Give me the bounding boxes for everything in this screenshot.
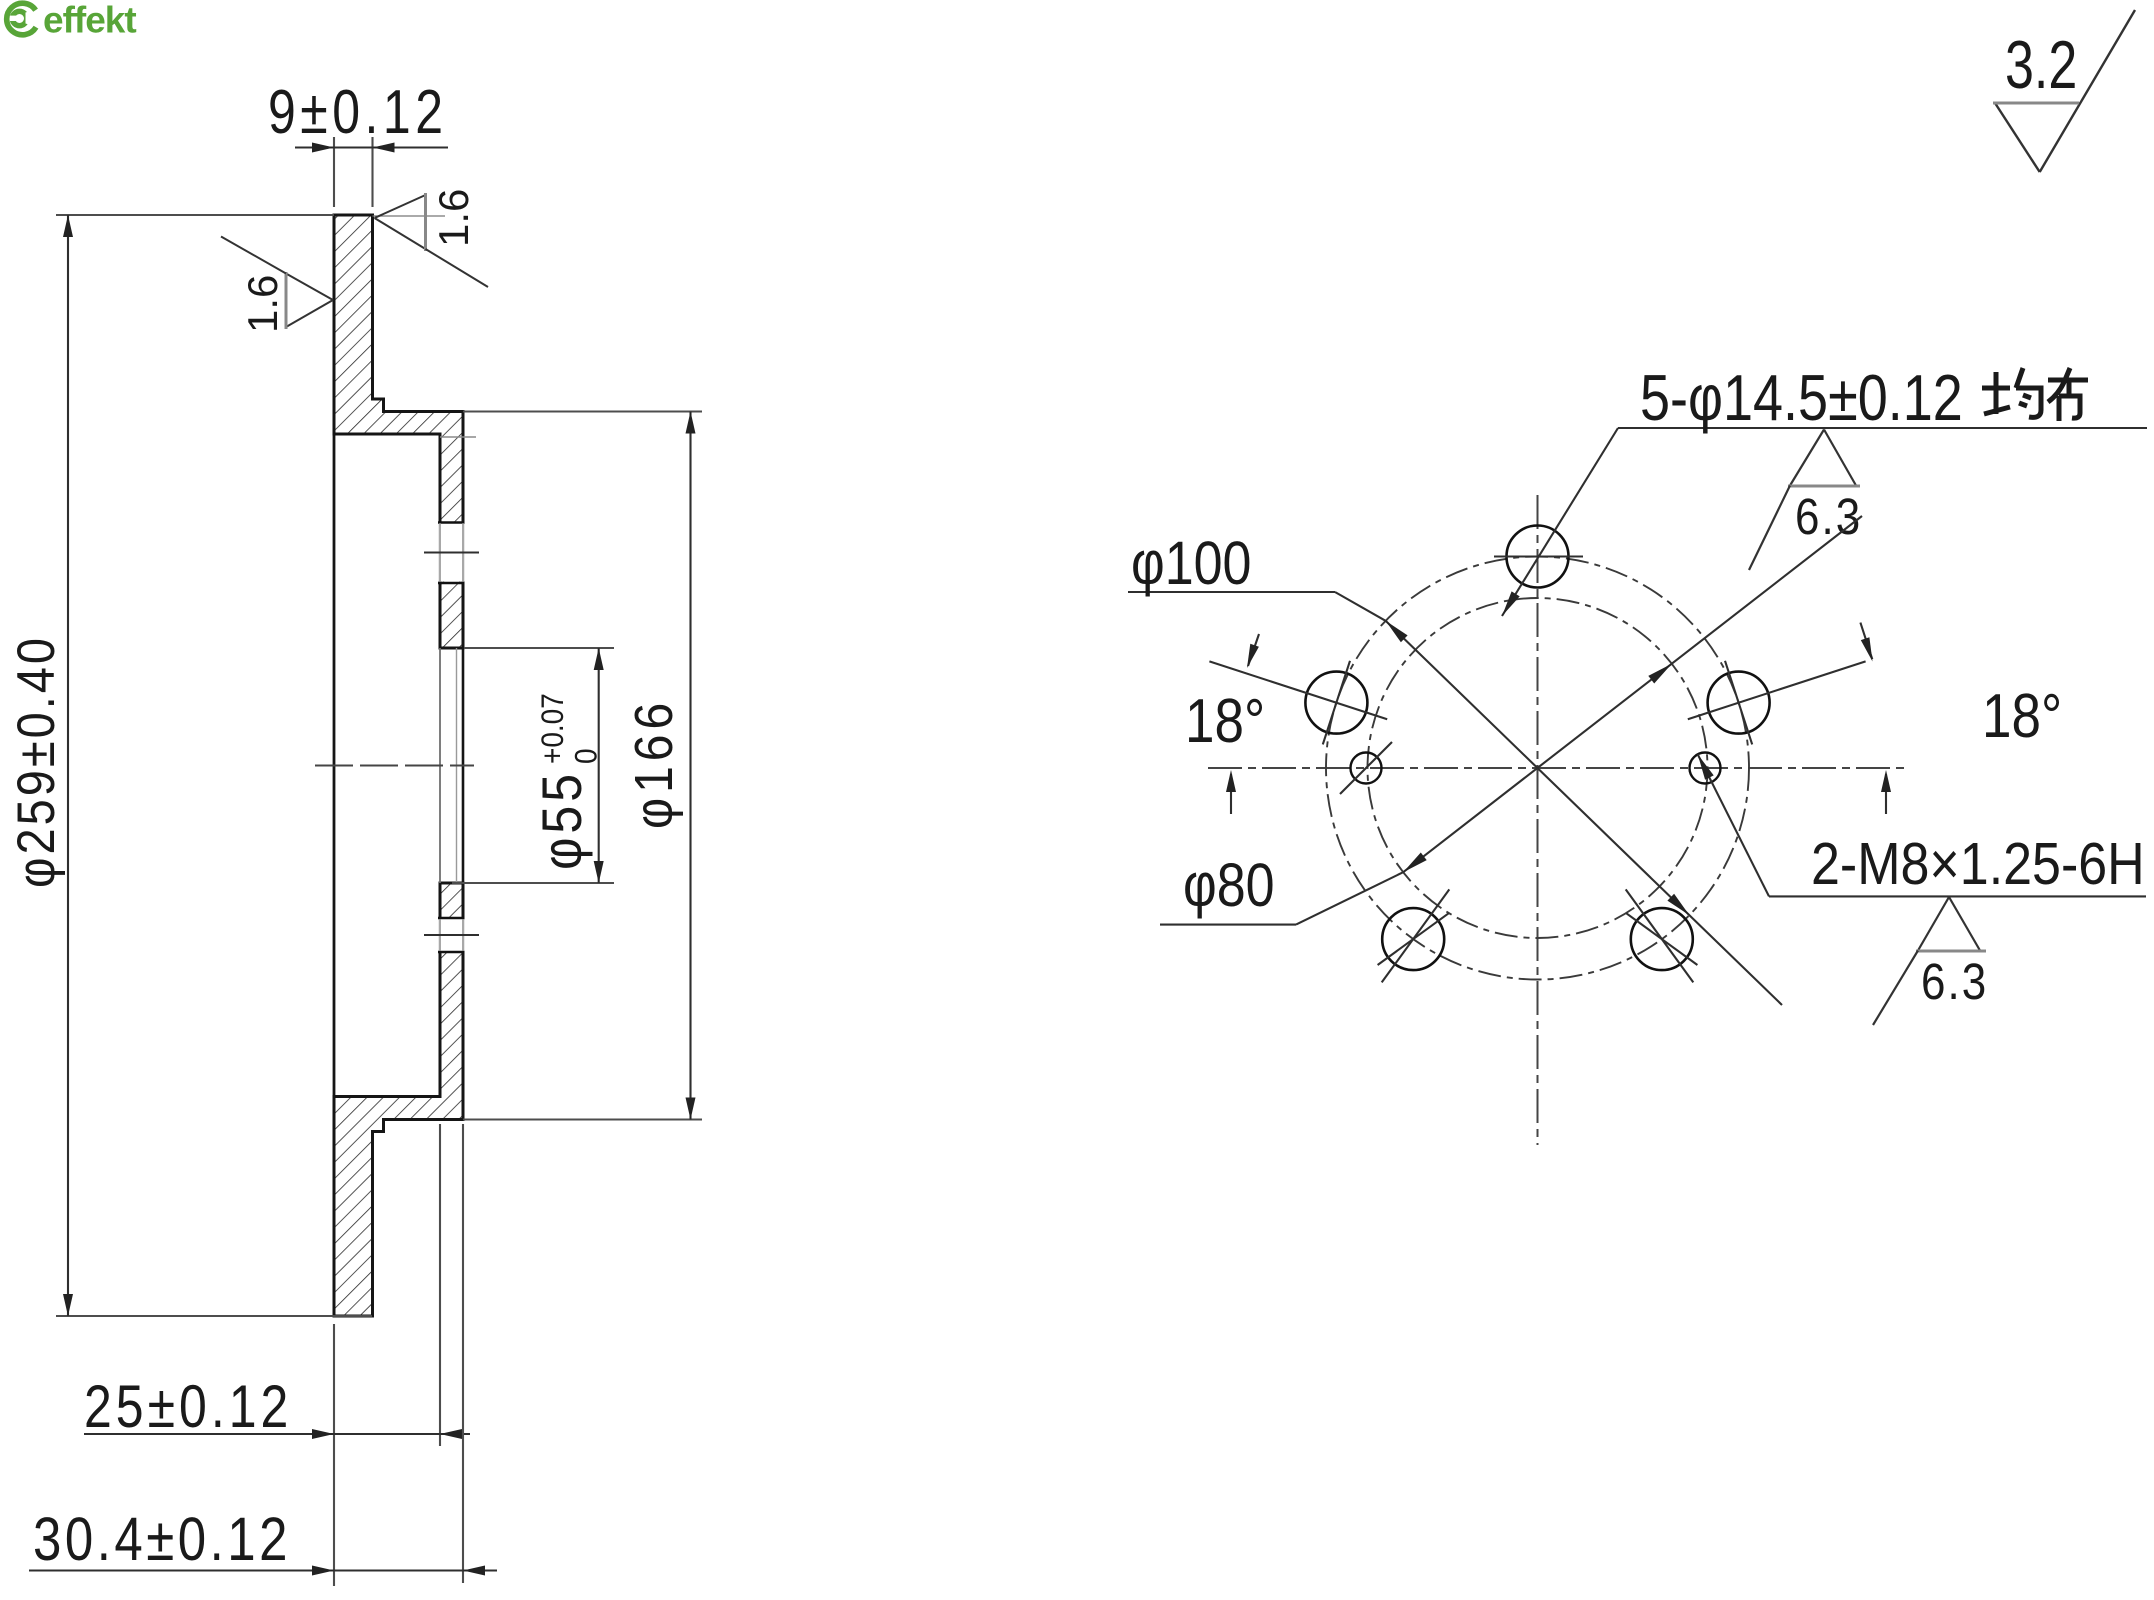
svg-text:30.4±0.12: 30.4±0.12 (33, 1505, 291, 1573)
svg-text:3.2: 3.2 (2005, 26, 2077, 102)
dimension 25±0.12 (84, 1124, 470, 1586)
surface symbol 6.3 lower (1873, 897, 1986, 1025)
logo effekt mark (4, 3, 36, 35)
phi80 bolt circle (1368, 598, 1708, 938)
surface finish symbol 3.2 top right (1993, 10, 2135, 172)
label 5-phi14.5±0.12 evenly spaced (1640, 361, 1963, 434)
radial line 18 deg (1688, 661, 1866, 719)
label 2-M8x1.25-6H (1811, 830, 2145, 897)
dimension phi55 +0.07/0 (452, 648, 614, 883)
CJK 均 glyph (1982, 368, 2041, 417)
svg-text:5-φ14.5±0.12: 5-φ14.5±0.12 (1640, 361, 1963, 434)
M8 thread hole slot in section (438, 918, 465, 952)
section view: lower half outline with hatching (334, 883, 463, 1316)
cross mark 18 deg hole (1725, 661, 1752, 745)
dimension 30.4±0.12 (29, 1124, 497, 1583)
bolt hole phi14.5 at 306 deg (1631, 908, 1693, 970)
mounting face edge across bore (462, 648, 465, 883)
leader 2-M8 thread holes (1698, 754, 2146, 896)
svg-text:1.6: 1.6 (239, 275, 286, 333)
disc axis centerline (315, 765, 474, 767)
section view: upper half outline with hatching (334, 215, 463, 648)
bolt hole slot center mark (424, 552, 479, 554)
svg-text:φ55: φ55 (531, 770, 593, 870)
extension line top edge to surface symbol (373, 215, 446, 217)
svg-text:1.6: 1.6 (430, 189, 477, 247)
bolt hole phi14.5 top (1507, 526, 1569, 588)
bolt hole phi14.5 at 234 deg (1382, 908, 1444, 970)
svg-text:6.3: 6.3 (1795, 489, 1862, 546)
dimension phi100 (1128, 592, 1782, 1005)
angle dim 18 deg right (1860, 623, 1891, 814)
svg-text:φ259±0.40: φ259±0.40 (7, 635, 66, 888)
dimension phi80 (1160, 516, 1862, 925)
M8 thread hole left (1351, 753, 1382, 784)
cross mark 234 deg hole (1378, 913, 1449, 965)
svg-text:6.3: 6.3 (1921, 954, 1988, 1011)
svg-text:2-M8×1.25-6H: 2-M8×1.25-6H (1811, 830, 2145, 897)
radial line 234 deg (1382, 889, 1450, 982)
M8 left diagonal mark (1340, 742, 1392, 794)
svg-text:0: 0 (569, 748, 604, 764)
friction ring left face full edge (333, 215, 336, 1316)
cross mark 162 deg hole (1323, 661, 1350, 745)
bolt hole phi14.5 at 162 deg (1305, 672, 1367, 734)
leader 5-phi14.5 holes (1502, 428, 2147, 616)
label phi80 (1183, 852, 1275, 920)
top hole center mark (1494, 555, 1583, 557)
dimension phi259±0.40 (56, 215, 372, 1316)
svg-text:+0.07: +0.07 (536, 693, 571, 764)
radial line 306 deg (1626, 889, 1694, 982)
dimension phi166 (463, 412, 702, 1120)
svg-text:φ80: φ80 (1183, 852, 1275, 920)
svg-text:18°: 18° (1185, 687, 1265, 756)
surface symbol 6.3 upper (1749, 430, 1860, 571)
CJK 布 glyph (2048, 368, 2088, 421)
radial line 162 deg (1209, 661, 1387, 719)
svg-text:φ166: φ166 (623, 698, 683, 829)
bolt hole phi14.5 at 18 deg (1708, 672, 1770, 734)
phi100 bolt circle (1326, 557, 1749, 980)
label phi100 (1131, 530, 1251, 598)
surface finish symbol 1.6 right (375, 193, 489, 287)
dimension 9±0.12 (295, 137, 448, 207)
svg-text:φ100: φ100 (1131, 530, 1251, 598)
svg-text:9±0.12: 9±0.12 (268, 77, 448, 147)
bolt hole phi14.5 slot in section (438, 523, 465, 584)
bolt view horizontal centerline (1208, 767, 1908, 769)
svg-text:25±0.12: 25±0.12 (84, 1373, 292, 1440)
cross mark 306 deg hole (1626, 913, 1697, 965)
surface finish symbol 1.6 left (221, 237, 333, 330)
bore chamfer line (456, 648, 458, 883)
svg-text:18°: 18° (1982, 682, 2062, 751)
M8 thread hole right (1690, 753, 1721, 784)
bolt view vertical centerline (1537, 495, 1539, 1145)
M8 slot center mark (424, 934, 479, 936)
svg-text:effekt: effekt (43, 0, 136, 41)
flange inner face edge across bore (439, 648, 441, 883)
hat wall inner edge stub (440, 436, 476, 438)
angle dim 18 deg left (1226, 634, 1259, 814)
